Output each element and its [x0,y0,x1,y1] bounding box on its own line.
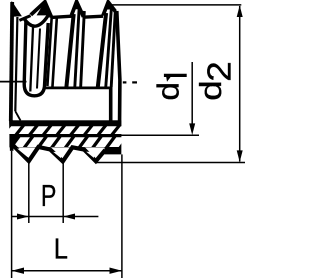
svg-text:P: P [41,179,57,213]
svg-text:d: d [194,80,228,100]
knurl facet white cells row 1 [5,126,130,134]
flange left edge [9,120,13,151]
insert body left edge (thread crest T1, solid tip) [12,1,22,17]
dimension line L with arrows [12,268,122,274]
extension line P right (from tooth tip 2) [62,162,64,223]
thread crest tooth T3 [72,2,84,17]
knurl facet white cells row 2 [13,137,126,147]
thread flank lines under T3 [66,14,74,89]
slot outline (left wall, U bottom, right wall) [24,21,48,96]
centerline dash 2 [132,81,137,83]
body bottom edge / flange top [9,120,121,124]
thread crest tooth T2 (solid) [31,2,52,17]
thread flank lines under T2 (right of slot) [47,17,51,86]
smooth shank right boundary [109,87,113,122]
locking teeth white interiors [17,149,95,159]
slot inner edge line 1 [30,28,33,92]
dimension line P with outside arrows [12,214,99,220]
svg-text:L: L [54,233,68,265]
thread root between T2 and T3 [52,16,72,17]
svg-text:2: 2 [201,61,238,82]
extension line d1 (flange top) [121,134,199,136]
thread root between T3 and T4 [84,16,104,17]
thread crest tooth T4 [103,2,115,15]
slot top arc [24,14,49,26]
locking teeth zigzag outline [13,145,105,161]
centerline dash 1 [123,81,127,83]
svg-text:d: d [151,82,186,100]
slot inner edge line 2 [37,29,40,89]
thread root diagonal left of slot [19,16,30,21]
label d1 [151,75,187,100]
dimension line d1 with arrow [189,62,195,135]
thread flank lines under T4 [98,13,106,88]
extension line L right [121,154,123,278]
thread runout jog bottom left [15,111,20,121]
thread flank line under T1 [15,17,17,111]
extension line P left (from tooth tip 1) [28,162,30,224]
extension line top (thread crest) [112,4,242,6]
flange band (filled black) [9,120,121,154]
extension line d2 (locking tooth tip) [96,162,245,164]
centerline (axis) [0,81,27,83]
body right edge [117,11,120,153]
extension line L left [11,151,13,278]
dimension line d2 with arrows [237,5,243,162]
label d2 [194,61,238,101]
shoulder line (thread runout) [45,87,111,90]
